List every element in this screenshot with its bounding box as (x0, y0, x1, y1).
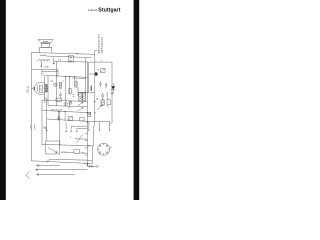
line y145 (42, 144, 94, 146)
capacitor (99, 82, 101, 88)
switch diagonal small (97, 105, 101, 110)
rail ticks (85, 134, 88, 155)
small pin circle (54, 83, 57, 86)
tube internal electrodes (38, 84, 49, 93)
resistor (75, 81, 77, 87)
wire y159 with hook (46, 159, 92, 163)
grid capacitor at tube left (31, 87, 35, 90)
bottom frame (31, 161, 92, 164)
capacitor mid (59, 92, 61, 99)
fuse box (68, 116, 72, 120)
right tall vertical (111, 62, 113, 121)
capacitor (105, 83, 107, 89)
node (41, 66, 42, 67)
mains plug hooks (31, 124, 36, 130)
row3 right extension (87, 120, 110, 122)
wire (79, 152, 87, 154)
vertical x92.6 (93, 126, 94, 163)
component box on mains row (56, 98, 61, 101)
wire: primary taps (41, 58, 54, 67)
three contact arrows (65, 130, 77, 132)
dark mark (90, 86, 92, 91)
small box on row3 (80, 118, 84, 121)
hanging terminal pins (89, 121, 110, 129)
left page-edge black band (0, 0, 6, 200)
terminal marks (96, 98, 98, 99)
speaker (38, 40, 53, 53)
mains row 2 (42, 110, 87, 112)
svg-text:500 Kondensator: 500 Kondensator (101, 37, 104, 54)
svg-text:Stuttgart: Stuttgart (98, 7, 120, 13)
tube UCL11 envelope (35, 82, 47, 94)
wire y61.4 (54, 60, 88, 63)
hatched resistor right (101, 100, 104, 106)
coil small (61, 152, 67, 153)
mains row 1 (42, 100, 87, 101)
bus junction dots (56, 75, 57, 76)
right page-edge black band (134, 0, 140, 200)
pilot lamp circle (101, 95, 103, 97)
small hatched box on rail (88, 112, 91, 116)
capacitor on row3 (57, 116, 60, 120)
tiny cap marks (73, 95, 75, 96)
right block top bus (89, 62, 112, 92)
screen line (78, 91, 95, 93)
top mid bus (44, 75, 87, 78)
transformer primary large loops (38, 59, 50, 61)
antenna lines with arrows (37, 164, 61, 166)
component box on bus pair (68, 56, 74, 62)
node (111, 93, 112, 94)
switch diagonal lower (75, 135, 87, 143)
svg-text:UCL11: UCL11 (26, 85, 29, 93)
voltage selector resistors (79, 93, 82, 102)
coil with core bottom mid (64, 103, 68, 105)
transformer secondary small loops (40, 55, 46, 56)
selector contact arrows (78, 102, 83, 111)
contact jog wires (66, 123, 87, 130)
svg-text:Lorenz: Lorenz (88, 8, 98, 12)
junction dots mains (46, 100, 47, 101)
wire (67, 151, 74, 153)
plug bracket (26, 172, 30, 179)
svg-text:Außenantenne über: Außenantenne über (98, 34, 101, 54)
switch arm left (69, 101, 72, 108)
antenna feed vertical (94, 54, 96, 126)
tube socket circle (98, 143, 110, 155)
mains row 3 (47, 119, 88, 121)
resistor (59, 83, 61, 89)
mid vertical wires (44, 62, 78, 107)
wire: top antenna bus (31, 51, 97, 55)
mains verticals (42, 100, 65, 145)
resistor (69, 89, 71, 94)
diode (111, 86, 115, 89)
switch box right (101, 68, 105, 72)
bottom output arrow (87, 165, 98, 167)
svg-text:4036: 4036 (45, 67, 49, 69)
box right (107, 100, 110, 105)
hook diagonal at end (109, 121, 113, 125)
node (53, 63, 54, 64)
tick and node on 46.7 (44, 128, 47, 130)
transformer frame lines (31, 70, 58, 77)
big box bottom-left (46, 141, 60, 154)
right rail pair (86, 58, 88, 165)
vertical x59.8 (59, 111, 61, 145)
bottom mid bus (48, 106, 87, 107)
small box (74, 150, 80, 154)
svg-text:110 125 220: 110 125 220 (51, 110, 63, 112)
lamp dark dot (95, 72, 98, 76)
node (59, 144, 60, 145)
left frame wire (30, 53, 32, 161)
node on top bus (77, 53, 78, 54)
arrow inside box (48, 148, 57, 153)
wire: second bus (46, 56, 92, 58)
socket pins (106, 145, 108, 147)
tiny labels (43, 59, 103, 138)
